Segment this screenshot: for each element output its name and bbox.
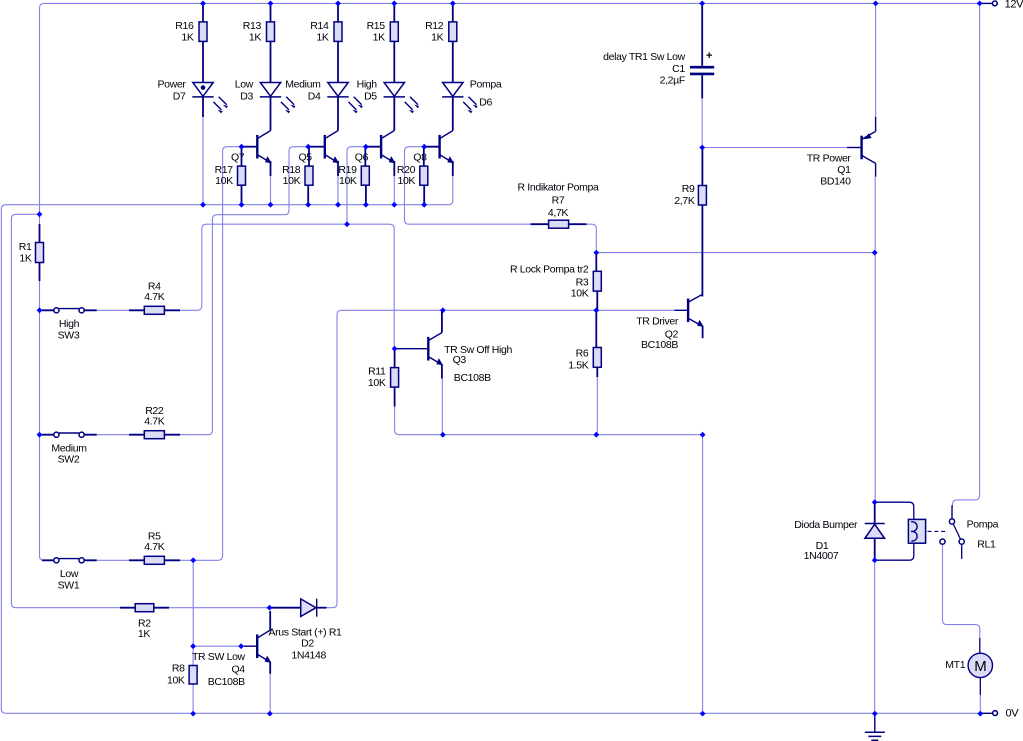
wire Q2 emitter down to 0V rail <box>702 435 704 714</box>
junction Q5 base <box>305 144 311 150</box>
svg-text:Q1: Q1 <box>837 164 851 176</box>
wire SW1 row to R5 <box>84 559 129 561</box>
junction D1 cathode / relay coil node <box>872 499 878 505</box>
svg-text:4.7K: 4.7K <box>144 291 165 303</box>
transistor Q8 <box>440 131 454 164</box>
svg-text:Low: Low <box>235 78 254 90</box>
wire R5 right junction to Low riser <box>180 147 242 561</box>
motor MT1 <box>979 638 981 653</box>
resistor R19 10K <box>364 147 366 166</box>
svg-text:High: High <box>357 78 378 90</box>
svg-text:Medium: Medium <box>51 442 87 454</box>
junction D1 anode / relay coil node <box>872 557 878 563</box>
junction 0V rail / Q4 emitter <box>267 711 273 717</box>
svg-text:R12: R12 <box>425 20 444 32</box>
resistor R4 4.7K <box>129 309 180 311</box>
wire Low junction down to Q4 base <box>193 560 244 646</box>
resistor R14 1K <box>337 3 339 82</box>
junction Q8 base <box>421 144 427 150</box>
svg-text:R3: R3 <box>576 276 589 288</box>
LED D5 High <box>384 83 404 97</box>
transistor Q4 TR SW Low BC108B <box>257 630 271 663</box>
wire SW3 row to R4 <box>84 309 129 311</box>
svg-text:TR Power: TR Power <box>807 153 852 165</box>
svg-text:1K: 1K <box>373 31 385 43</box>
svg-text:1K: 1K <box>431 31 443 43</box>
svg-text:R7: R7 <box>552 195 565 207</box>
resistor R8 10K <box>189 666 197 685</box>
junction emitter rail / R17 <box>239 202 245 208</box>
svg-text:10K: 10K <box>368 377 386 389</box>
svg-text:Pompa: Pompa <box>470 78 502 90</box>
LED D4 Medium <box>328 83 348 97</box>
wire R1 top to R2 feed (left route) <box>11 214 120 607</box>
junction emitter rail / R18 <box>305 202 311 208</box>
resistor R12 1K <box>452 3 454 82</box>
wire Q1 emitter to rail <box>875 3 877 116</box>
wire R2 D2 row <box>120 607 270 609</box>
svg-text:MT1: MT1 <box>945 659 965 671</box>
junction emitter rail / R20 <box>421 202 427 208</box>
switch SW2 Medium <box>42 434 97 436</box>
wire Medium line1 up to Q5 base <box>285 147 309 215</box>
svg-text:TR Driver: TR Driver <box>636 316 679 328</box>
svg-text:10K: 10K <box>215 175 233 187</box>
junction R1 top node <box>37 211 43 217</box>
svg-text:R9: R9 <box>682 183 695 195</box>
junction 12V rail / R16 <box>200 1 206 7</box>
wire Q8 base feed to R7 row <box>405 147 531 225</box>
svg-text:2,7K: 2,7K <box>674 195 695 207</box>
svg-text:Pompa: Pompa <box>967 519 999 531</box>
LED D3 Low <box>260 83 280 97</box>
svg-text:Power: Power <box>157 78 186 90</box>
wire Q8 emitter corner <box>448 176 453 205</box>
junction 0V rail / ground node <box>872 711 878 717</box>
svg-text:D2: D2 <box>301 637 314 649</box>
switch SW1 Low <box>42 559 97 561</box>
svg-text:1K: 1K <box>19 253 31 265</box>
svg-text:delay TR1 Sw Low: delay TR1 Sw Low <box>603 51 686 63</box>
resistor R6 1.5K <box>595 310 597 347</box>
svg-text:10K: 10K <box>283 175 301 187</box>
svg-text:RL1: RL1 <box>977 539 996 551</box>
junction 0V rail / R8 <box>190 711 196 717</box>
svg-text:TR SW Low: TR SW Low <box>192 651 246 663</box>
svg-text:M: M <box>974 658 986 675</box>
junction R3/R6/Q2 base node <box>593 307 599 313</box>
junction 12V rail / Q1 emitter <box>873 1 879 7</box>
junction SW1/R5 node <box>190 557 196 563</box>
svg-text:Dioda Bumper: Dioda Bumper <box>794 519 858 531</box>
svg-text:Q8: Q8 <box>413 151 427 163</box>
wire Arus line to Q2 base <box>443 309 675 311</box>
junction Q3 emitter node <box>440 432 446 438</box>
svg-text:Medium: Medium <box>285 78 321 90</box>
svg-text:4,7K: 4,7K <box>548 207 569 219</box>
wire Q1 collector down through D1 to ground <box>874 177 877 714</box>
svg-text:1K: 1K <box>316 31 328 43</box>
svg-text:R8: R8 <box>172 663 185 675</box>
svg-text:D4: D4 <box>308 91 321 103</box>
svg-text:High: High <box>59 318 80 330</box>
junction 12V rail / R14 <box>335 1 341 7</box>
svg-text:D6: D6 <box>479 97 492 109</box>
diode D2 1N4148 Arus Start <box>270 607 301 609</box>
wire R22 right up to Medium line1 <box>180 215 285 435</box>
LED D7 Power <box>193 83 213 97</box>
junction 0V rail / motor <box>977 711 983 717</box>
terminal 12V <box>980 2 993 4</box>
wire SW2 row to R22 <box>84 434 129 436</box>
svg-text:R11: R11 <box>368 365 386 377</box>
junction Q6 base <box>363 144 369 150</box>
svg-text:BD140: BD140 <box>820 176 851 188</box>
junction emitter rail / R19 <box>363 202 369 208</box>
wire motor bottom to 0V rail <box>979 695 981 714</box>
resistor R9 2,7K <box>701 148 703 186</box>
resistor R11 10K <box>394 349 396 368</box>
svg-text:R1: R1 <box>19 241 32 253</box>
wire High line junction up to Q6 base <box>347 147 366 225</box>
junction High line / Q6 base node <box>344 221 350 227</box>
junction emitter rail / Q5 emitter <box>335 202 341 208</box>
svg-text:Q3: Q3 <box>453 354 467 366</box>
resistor R22 4.7K <box>129 434 180 436</box>
junction emitter rail / Q6 emitter <box>391 202 397 208</box>
svg-text:2,2µF: 2,2µF <box>660 75 685 87</box>
wire emitter/ground rail y=204.7 and left-side 0V return <box>1 205 979 714</box>
svg-text:R15: R15 <box>367 20 386 32</box>
wire D7 cathode to rail junction <box>202 117 204 205</box>
svg-text:Q6: Q6 <box>355 151 369 163</box>
junction Q3 collector node <box>440 307 446 313</box>
ground symbol <box>874 714 876 733</box>
resistor R7 R Indikator Pompa 4,7K <box>531 223 587 225</box>
svg-text:R Indikator Pompa: R Indikator Pompa <box>517 182 599 194</box>
junction C1/R9/Q1 base node <box>699 145 705 151</box>
wire 12V to relay contact common <box>953 3 980 507</box>
switch SW3 High <box>42 309 97 311</box>
svg-text:Low: Low <box>60 568 79 580</box>
wire R7 right down to R3 top junction <box>587 224 597 252</box>
svg-text:SW1: SW1 <box>58 579 80 591</box>
resistor R15 1K <box>393 3 395 82</box>
junction Q1 collector / R7 node <box>872 250 878 256</box>
wire R11 bottom to Q3/Q2 emitter line y=434.7 <box>395 407 703 435</box>
wire R17-R20 bottoms <box>242 185 425 205</box>
resistor R5 4.7K <box>129 559 180 561</box>
transistor Q6 <box>381 131 395 164</box>
terminal 0V <box>980 712 993 714</box>
transistor Q1 TR Power BD140 (PNP) <box>847 117 876 177</box>
svg-text:Q4: Q4 <box>231 664 245 676</box>
junction SW2 node <box>37 432 43 438</box>
resistor R13 1K <box>270 3 272 82</box>
junction D2 anode / Q4 collector node <box>267 605 273 611</box>
wire R4 right up to High line <box>180 224 342 310</box>
wire Q4 emitter to 0V rail <box>269 674 271 714</box>
transistor Q2 TR Driver BC108B <box>688 294 704 327</box>
junction Q3 base / R11 node <box>392 346 398 352</box>
svg-text:Q7: Q7 <box>231 151 245 163</box>
wire R8 leads <box>192 646 194 713</box>
wire D2 cathode up to Arus line y=310.3 <box>327 310 443 607</box>
wire R9 Q2 collector gap <box>701 205 703 297</box>
junction emitter rail / Q7 emitter <box>268 202 274 208</box>
svg-text:R Lock Pompa tr2: R Lock Pompa tr2 <box>510 263 589 275</box>
relay RL1 contact Pompa <box>951 506 953 519</box>
junction R7/R3 node <box>593 250 599 256</box>
svg-text:R6: R6 <box>576 348 589 360</box>
junction Q4 base / R8 node <box>190 643 196 649</box>
relay RL1 coil <box>875 502 914 519</box>
junction R6 bottom node <box>593 432 599 438</box>
svg-text:0V: 0V <box>1006 708 1020 720</box>
svg-text:10K: 10K <box>167 675 185 687</box>
transistor Q3 TR Sw Off High BC108B <box>428 333 443 366</box>
transistor Q5 <box>325 131 339 164</box>
junction Q4 base wire node <box>238 643 244 649</box>
LED D6 Pompa <box>443 83 463 97</box>
capacitor C1 2,2uF <box>701 3 703 66</box>
svg-text:R16: R16 <box>175 20 194 32</box>
svg-text:SW3: SW3 <box>58 329 80 341</box>
resistor R18 10K <box>308 147 310 166</box>
svg-text:4.7K: 4.7K <box>144 541 165 553</box>
resistor R17 10K <box>241 147 243 166</box>
transistor Q7 <box>257 131 271 164</box>
svg-text:Q5: Q5 <box>298 151 312 163</box>
svg-text:R14: R14 <box>310 20 329 32</box>
wire High line to Q3 base <box>342 224 394 349</box>
wire R3 junction to Q1 collector line y=252.6 <box>596 252 874 254</box>
svg-text:4.7K: 4.7K <box>144 416 165 428</box>
svg-text:1K: 1K <box>181 31 193 43</box>
junction 12V rail / C1 <box>699 1 705 7</box>
svg-text:1.5K: 1.5K <box>568 359 589 371</box>
resistor R1 1K <box>39 224 41 281</box>
svg-text:10K: 10K <box>339 175 357 187</box>
junction 12V rail / R13 <box>268 1 274 7</box>
junction 12V rail / R12 <box>450 1 456 7</box>
wire relay NO contact to motor <box>943 545 980 638</box>
resistor R20 10K <box>423 147 425 166</box>
svg-text:10K: 10K <box>571 288 589 300</box>
junction 12V rail / relay feed <box>977 1 983 7</box>
diode D1 Dioda Bumper 1N4007 <box>874 502 876 523</box>
svg-text:D5: D5 <box>364 91 377 103</box>
resistor R2 1K <box>120 607 169 609</box>
junction SW3 node <box>37 307 43 313</box>
svg-text:R13: R13 <box>243 20 262 32</box>
junction emitter rail / D7 cathode <box>200 202 206 208</box>
svg-text:1K: 1K <box>138 628 150 640</box>
junction Q7 base <box>239 144 245 150</box>
wire transistor emitters to rail y=204.7 <box>271 176 395 205</box>
wire switch bus R1 bottom to SW1 <box>40 281 55 560</box>
svg-text:D7: D7 <box>173 91 186 103</box>
svg-text:BC108B: BC108B <box>641 339 678 351</box>
svg-text:C1: C1 <box>672 63 685 75</box>
svg-text:BC108B: BC108B <box>208 676 245 688</box>
junction Q2 emitter node <box>700 432 706 438</box>
svg-text:SW2: SW2 <box>58 454 80 466</box>
svg-text:12V: 12V <box>1005 0 1023 11</box>
junction 12V rail / R15 <box>391 1 397 7</box>
resistor R16 1K <box>202 3 204 82</box>
junction 0V rail / Q2 emitter <box>700 711 706 717</box>
wire Q1 base line <box>702 147 847 149</box>
wire C1 bottom to Q1 base junction <box>701 98 703 147</box>
svg-text:1K: 1K <box>249 31 261 43</box>
svg-text:D3: D3 <box>240 91 253 103</box>
resistor R3 R Lock Pompa tr2 10K <box>595 253 597 272</box>
svg-text:10K: 10K <box>397 175 415 187</box>
svg-text:1N4007: 1N4007 <box>804 550 839 562</box>
svg-text:BC108B: BC108B <box>454 372 491 384</box>
svg-text:+: + <box>706 50 712 62</box>
svg-text:1N4148: 1N4148 <box>291 649 326 661</box>
wire 12V top rail <box>40 3 980 214</box>
wire R1 top stub <box>39 214 41 224</box>
